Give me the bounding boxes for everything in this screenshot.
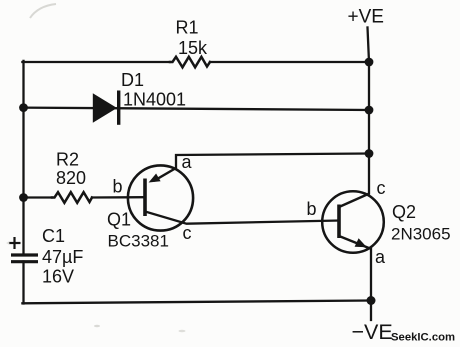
wire: bottom rail horizontal [22, 301, 371, 304]
svg-text:SeekIC.com: SeekIC.com [391, 332, 455, 344]
wire: +VE vertical rail [368, 28, 370, 194]
svg-text:−VE: −VE [352, 320, 393, 344]
resistor R2 [52, 192, 92, 203]
svg-text:R1: R1 [176, 18, 199, 38]
svg-text:D1: D1 [121, 70, 144, 90]
svg-text:c: c [183, 223, 192, 243]
svg-text:R2: R2 [56, 150, 79, 170]
node: junction dot D1 right [365, 106, 374, 115]
svg-text:47µF: 47µF [42, 247, 83, 267]
svg-text:a: a [375, 247, 386, 267]
wire: R2 left lead from rail [24, 196, 53, 198]
resistor R1 [170, 57, 210, 68]
wire: Q1 emitter to +VE rail [176, 154, 369, 169]
wire: Q1 collector to Q2 base [145, 212, 339, 224]
svg-text:b: b [113, 177, 123, 197]
svg-text:b: b [307, 199, 317, 219]
node: junction dot R2 left [19, 193, 28, 202]
diode D1 [93, 91, 119, 125]
wire: left vertical rail lower (below C1) [22, 262, 24, 304]
scan speck bottom middle [179, 330, 186, 332]
scan speck bottom [94, 325, 100, 327]
capacitor C1 [9, 237, 39, 262]
svg-text:15k: 15k [178, 38, 208, 58]
svg-text:c: c [377, 178, 386, 198]
node: junction dot emitter net right [365, 149, 374, 158]
svg-text:16V: 16V [42, 267, 74, 287]
svg-text:+VE: +VE [348, 7, 384, 28]
node: junction dot bottom rail right [367, 296, 376, 305]
node: junction dot D1 left [19, 103, 28, 112]
svg-text:820: 820 [56, 168, 86, 188]
node: junction dot top rail right [365, 58, 374, 67]
svg-text:Q2: Q2 [392, 202, 416, 222]
wire: top rail horizontal left segment [22, 61, 170, 63]
wire: top rail horizontal right segment [210, 61, 369, 63]
wire: D1 horizontal net [24, 108, 370, 110]
wire: left vertical rail upper [22, 61, 24, 254]
svg-text:a: a [182, 152, 193, 172]
scan speck left [7, 242, 10, 244]
svg-text:Q1: Q1 [107, 210, 131, 230]
transistor Q2 [322, 191, 384, 253]
wire: Q2 emitter down to bottom rail [370, 249, 372, 321]
svg-text:1N4001: 1N4001 [123, 90, 186, 110]
transistor Q1 [128, 165, 193, 230]
svg-text:BC3381: BC3381 [108, 232, 169, 251]
wire: R2 to Q1 base [92, 196, 144, 199]
svg-text:2N3065: 2N3065 [391, 225, 451, 244]
scan smudge top left [30, 4, 56, 18]
svg-text:C1: C1 [42, 226, 65, 246]
